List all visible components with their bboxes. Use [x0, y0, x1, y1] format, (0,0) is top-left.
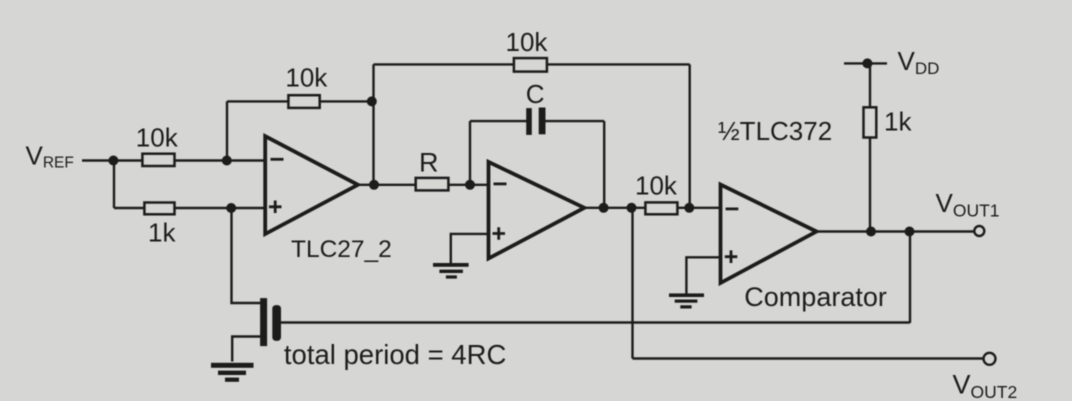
- node op1 output junction: [369, 180, 379, 190]
- op-amp U2 integrator: [489, 162, 585, 259]
- svg-text:10k: 10k: [285, 62, 328, 92]
- node op1 plus junction: [226, 203, 236, 213]
- resistor R integrator: [416, 178, 449, 191]
- wire comparator output row: [815, 230, 974, 232]
- svg-text:TLC27_2: TLC27_2: [291, 236, 392, 263]
- comparator U3 1/2 TLC372: [721, 185, 817, 284]
- op-amp U2 minus sign: [494, 182, 507, 185]
- wire top row: [374, 63, 690, 65]
- svg-text:C: C: [526, 79, 545, 109]
- resistor R5 10k comparator input: [645, 202, 677, 214]
- wire vertical feedback from Vout1 node down: [909, 232, 911, 323]
- wire Vout2 row: [633, 357, 985, 359]
- wire C loop right segment: [545, 120, 604, 122]
- wire comparator plus to ground: [686, 257, 720, 293]
- wire vertical top row down to comparator input node: [689, 64, 691, 208]
- wire bottom capacitor to ground: [232, 337, 260, 362]
- svg-text:Comparator: Comparator: [744, 282, 887, 312]
- resistor R4 10k top: [514, 58, 547, 72]
- capacitor C plate right: [539, 108, 546, 135]
- wire C loop left segment: [470, 120, 527, 122]
- node op2 minus junction: [465, 180, 475, 190]
- svg-text:10k: 10k: [506, 27, 549, 57]
- wire Vdd stub: [844, 62, 887, 64]
- node op2 output junction: [599, 203, 609, 213]
- node feedback junction: [367, 96, 377, 106]
- terminal Vout2: [984, 353, 996, 365]
- wire capacitor feedback row: [281, 321, 910, 323]
- ground op2: [433, 263, 469, 279]
- node Vdd junction: [862, 58, 872, 68]
- resistor R3 10k feedback op1: [288, 95, 319, 108]
- svg-text:10k: 10k: [136, 123, 179, 153]
- wire vertical Vout2 branch down: [631, 208, 633, 359]
- wire Vref input row: [82, 159, 265, 161]
- op-amp U2 plus sign: [493, 227, 506, 240]
- svg-text:10k: 10k: [635, 171, 678, 201]
- node Vref junction: [108, 156, 118, 166]
- wire 1k row to op1 plus: [114, 207, 265, 209]
- comparator minus sign: [726, 207, 739, 210]
- node Vout1 junction 2: [905, 227, 915, 237]
- resistor R6 1k pull-up: [864, 107, 877, 137]
- node comparator minus junction: [684, 203, 694, 213]
- capacitor C2 bottom plate right: [272, 305, 281, 341]
- terminal Vout1: [974, 226, 984, 236]
- ground bottom capacitor: [211, 363, 254, 382]
- wire op1 minus node up to feedback row: [226, 101, 228, 161]
- op-amp U1 minus sign: [271, 158, 284, 161]
- capacitor C plate left: [526, 108, 532, 135]
- comparator plus sign: [725, 250, 738, 263]
- svg-text:1k: 1k: [148, 218, 176, 248]
- capacitor C2 bottom plate left: [260, 298, 267, 346]
- svg-text:1k: 1k: [884, 107, 912, 137]
- op-amp U1 plus sign: [269, 201, 282, 214]
- wire vertical C loop down to op2 output: [603, 121, 605, 208]
- ground comparator: [669, 293, 704, 308]
- wire vertical from Vref node down: [113, 161, 115, 209]
- resistor R1 10k input: [142, 154, 174, 166]
- node Vout1 junction 1: [866, 227, 876, 237]
- op-amp U1 TLC27_2: [265, 136, 358, 234]
- svg-text:R: R: [419, 148, 439, 178]
- wire vertical op2 minus node up to C loop: [469, 121, 471, 185]
- node op1 minus junction: [222, 156, 232, 166]
- node Vout2 branch junction: [627, 203, 637, 213]
- svg-text:total period = 4RC: total period = 4RC: [284, 339, 506, 370]
- wire op1 output row to R and op2 minus: [356, 184, 489, 186]
- wire op2 output row to comparator minus: [583, 207, 721, 209]
- svg-text:½TLC372: ½TLC372: [718, 116, 832, 146]
- wire op1 plus node down to bottom capacitor: [232, 208, 261, 303]
- wire feedback row: [227, 100, 374, 102]
- resistor R2 1k input: [144, 203, 174, 215]
- wire Vdd vertical through 1k pull-up: [869, 63, 871, 231]
- wire vertical op1 output to top row: [372, 64, 374, 184]
- wire op2 plus to ground: [451, 234, 489, 264]
